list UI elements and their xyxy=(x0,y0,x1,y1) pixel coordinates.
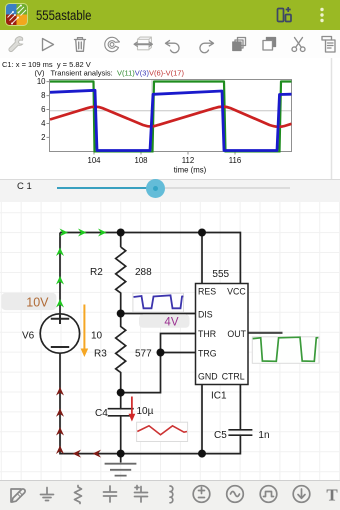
svg-text:577: 577 xyxy=(135,349,152,360)
svg-text:DIS: DIS xyxy=(198,310,213,320)
svg-text:CTRL: CTRL xyxy=(222,372,245,382)
svg-text:C4: C4 xyxy=(95,408,108,419)
svg-text:112: 112 xyxy=(182,156,194,165)
svg-text:R3: R3 xyxy=(94,349,107,360)
svg-text:2: 2 xyxy=(41,133,45,142)
svg-text:C5: C5 xyxy=(214,430,227,441)
svg-text:R2: R2 xyxy=(90,267,103,278)
svg-text:6: 6 xyxy=(41,105,45,114)
svg-text:THR: THR xyxy=(198,329,216,339)
svg-text:4V: 4V xyxy=(164,317,178,329)
svg-text:GND: GND xyxy=(198,372,218,382)
svg-text:288: 288 xyxy=(135,267,152,278)
svg-text:IC1: IC1 xyxy=(211,391,227,402)
svg-text:VCC: VCC xyxy=(227,287,246,297)
svg-text:TRG: TRG xyxy=(198,349,217,359)
svg-text:4: 4 xyxy=(41,119,46,128)
svg-text:555: 555 xyxy=(212,269,229,280)
svg-text:V(11)V(3)V(6)-V(17): V(11)V(3)V(6)-V(17) xyxy=(117,69,184,78)
svg-text:T: T xyxy=(326,486,338,505)
svg-text:time (ms): time (ms) xyxy=(174,166,207,175)
svg-text:OUT: OUT xyxy=(227,329,246,339)
svg-text:10V: 10V xyxy=(26,296,49,310)
svg-text:10: 10 xyxy=(91,331,103,342)
svg-text:10: 10 xyxy=(37,77,46,86)
svg-text:V6: V6 xyxy=(22,331,35,342)
svg-text:104: 104 xyxy=(87,156,101,165)
svg-text:8: 8 xyxy=(41,91,45,100)
svg-text:RES: RES xyxy=(198,287,216,297)
svg-text:108: 108 xyxy=(134,156,147,165)
svg-text:116: 116 xyxy=(229,156,241,165)
svg-text:1n: 1n xyxy=(258,430,269,441)
svg-text:(V): (V) xyxy=(35,69,46,78)
svg-text:10µ: 10µ xyxy=(137,406,154,417)
svg-text:Transient analysis:: Transient analysis: xyxy=(51,69,113,78)
